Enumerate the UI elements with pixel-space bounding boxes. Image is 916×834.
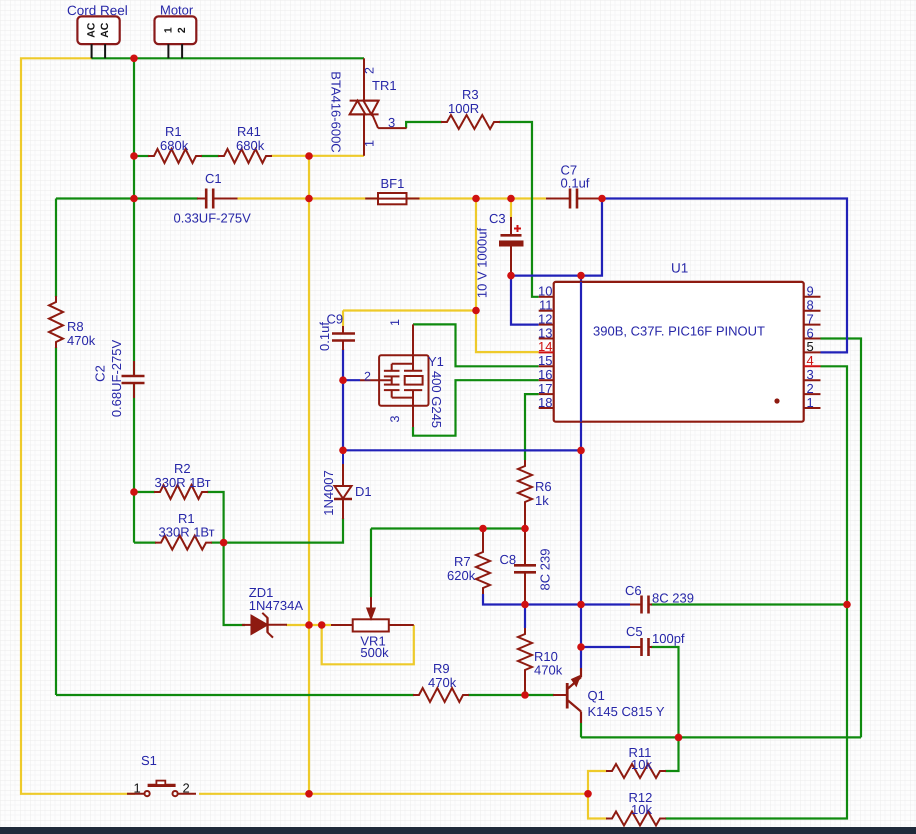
svg-text:Q1: Q1: [588, 688, 605, 703]
svg-text:D1: D1: [355, 484, 372, 499]
svg-text:C2: C2: [93, 365, 108, 382]
svg-text:390B, C37F. PIC16F PINOUT: 390B, C37F. PIC16F PINOUT: [593, 324, 765, 339]
svg-text:620k: 620k: [447, 568, 476, 583]
svg-text:5: 5: [807, 339, 814, 354]
svg-text:AC: AC: [86, 22, 98, 38]
svg-text:Cord Reel: Cord Reel: [67, 3, 128, 18]
svg-text:BTA416-600C: BTA416-600C: [329, 71, 344, 152]
svg-text:18: 18: [538, 395, 552, 410]
svg-text:S1: S1: [141, 753, 157, 768]
svg-text:C1: C1: [205, 171, 222, 186]
svg-text:1N4007: 1N4007: [321, 470, 336, 516]
svg-text:3: 3: [388, 115, 395, 130]
svg-text:1: 1: [388, 319, 402, 326]
svg-text:1: 1: [363, 140, 377, 147]
svg-text:470k: 470k: [428, 675, 457, 690]
svg-text:0.1uf: 0.1uf: [561, 176, 590, 191]
svg-text:330R 1Вт: 330R 1Вт: [155, 475, 211, 490]
svg-text:0.68UF-275V: 0.68UF-275V: [109, 340, 124, 418]
svg-text:10: 10: [538, 284, 552, 299]
svg-text:R1: R1: [165, 124, 182, 139]
svg-text:C3: C3: [489, 211, 506, 226]
svg-text:11: 11: [539, 298, 553, 313]
svg-text:8: 8: [807, 298, 814, 313]
svg-text:10k: 10k: [631, 802, 652, 817]
svg-text:C6: C6: [625, 583, 642, 598]
svg-text:R6: R6: [535, 479, 552, 494]
svg-text:R2: R2: [174, 461, 191, 476]
svg-text:2: 2: [807, 381, 814, 396]
svg-text:9: 9: [807, 284, 814, 299]
svg-text:12: 12: [538, 311, 552, 326]
svg-text:470k: 470k: [67, 333, 96, 348]
svg-text:3: 3: [807, 367, 814, 382]
svg-text:R9: R9: [433, 661, 450, 676]
svg-text:10k: 10k: [631, 757, 652, 772]
svg-text:C5: C5: [626, 624, 643, 639]
svg-text:100pf: 100pf: [652, 631, 685, 646]
svg-text:10 V 1000uf: 10 V 1000uf: [475, 228, 490, 299]
svg-text:0.33UF-275V: 0.33UF-275V: [174, 211, 252, 226]
svg-text:16: 16: [538, 367, 552, 382]
svg-text:Y1: Y1: [428, 354, 444, 369]
svg-text:Motor: Motor: [160, 3, 194, 18]
svg-text:15: 15: [538, 353, 552, 368]
svg-text:TR1: TR1: [372, 78, 397, 93]
svg-text:AC: AC: [99, 22, 111, 38]
svg-text:680k: 680k: [160, 138, 189, 153]
svg-text:400 G245: 400 G245: [429, 371, 444, 428]
svg-text:500k: 500k: [360, 645, 389, 660]
svg-text:8C 239: 8C 239: [538, 549, 553, 591]
svg-text:330R 1Вт: 330R 1Вт: [159, 525, 215, 540]
svg-text:1N4734A: 1N4734A: [249, 598, 304, 613]
svg-text:14: 14: [538, 339, 552, 354]
svg-text:2: 2: [176, 27, 188, 33]
svg-text:2: 2: [364, 370, 371, 384]
svg-text:R3: R3: [462, 87, 479, 102]
svg-text:1: 1: [134, 781, 141, 796]
svg-text:4: 4: [807, 353, 814, 368]
svg-text:R8: R8: [67, 319, 84, 334]
svg-text:R41: R41: [237, 124, 261, 139]
svg-text:680k: 680k: [236, 138, 265, 153]
svg-text:BF1: BF1: [381, 176, 405, 191]
svg-text:1k: 1k: [535, 493, 549, 508]
svg-text:0.1uf: 0.1uf: [317, 322, 332, 351]
svg-text:R7: R7: [454, 554, 471, 569]
svg-text:2: 2: [363, 67, 377, 74]
svg-text:3: 3: [388, 415, 402, 422]
svg-text:2: 2: [183, 781, 190, 796]
svg-text:1: 1: [162, 27, 174, 33]
svg-text:470k: 470k: [534, 663, 563, 678]
svg-text:17: 17: [538, 381, 552, 396]
svg-text:1: 1: [807, 395, 814, 410]
svg-text:6: 6: [807, 325, 814, 340]
svg-text:K145 C815 Y: K145 C815 Y: [588, 704, 665, 719]
svg-text:U1: U1: [671, 261, 688, 276]
svg-text:7: 7: [807, 311, 814, 326]
svg-text:C8: C8: [500, 552, 517, 567]
svg-text:8C 239: 8C 239: [652, 591, 694, 606]
svg-text:13: 13: [538, 325, 552, 340]
svg-text:100R: 100R: [448, 101, 479, 116]
